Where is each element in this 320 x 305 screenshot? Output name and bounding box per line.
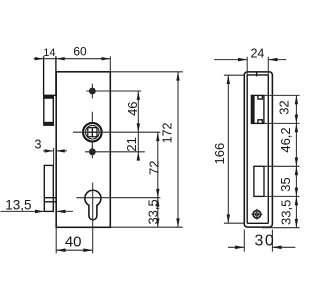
deadbolt inner line 1 xyxy=(44,197,56,199)
dim 13,5 line xyxy=(1,210,74,212)
dim 166 line xyxy=(227,75,229,223)
arrow 35 bottom xyxy=(295,188,298,197)
spindle square hole xyxy=(88,128,97,137)
deadbolt box xyxy=(44,165,53,211)
keeper plate outer xyxy=(244,72,272,227)
latch notch bottom xyxy=(258,120,263,124)
arrow 30 right xyxy=(272,246,281,250)
dim 3 ext line xyxy=(53,148,55,166)
arrow 33,5R top xyxy=(295,196,298,205)
arrow 172 top xyxy=(176,72,179,81)
svg-text:33,5: 33,5 xyxy=(146,199,161,224)
arrow 3 right xyxy=(56,149,65,152)
case right edge extension up xyxy=(109,56,111,72)
arrow 3 left xyxy=(45,149,54,152)
screw hole xyxy=(253,211,261,219)
case bottom extension right xyxy=(110,226,183,228)
svg-text:24: 24 xyxy=(250,47,264,61)
dim 166 ext lines xyxy=(224,75,245,223)
latch notch top xyxy=(258,95,263,99)
svg-text:14: 14 xyxy=(43,47,55,59)
arrow 33,5 bottom xyxy=(156,218,159,227)
dim 14/60 line xyxy=(34,58,111,60)
case top extension right xyxy=(110,71,183,73)
euro cylinder hole xyxy=(85,190,101,220)
arrow 46 top xyxy=(137,91,140,100)
deadbolt inner line 2 xyxy=(44,201,56,203)
upper dot centerlines xyxy=(86,84,141,99)
svg-text:60: 60 xyxy=(73,45,87,59)
case-left extension below xyxy=(55,227,57,253)
arrow 46 bottom xyxy=(137,123,140,132)
arrow 166 bottom xyxy=(227,214,230,223)
latch hatch band top xyxy=(44,96,53,99)
arrow 40 left xyxy=(56,248,65,252)
svg-text:3: 3 xyxy=(35,137,42,151)
svg-text:30: 30 xyxy=(255,233,276,250)
arrow 40 right xyxy=(83,248,92,252)
svg-text:46: 46 xyxy=(125,101,140,115)
svg-text:32: 32 xyxy=(277,100,292,114)
lower dot hole xyxy=(89,148,96,155)
dim 72/33,5 line xyxy=(157,132,159,227)
latch hatch band bottom xyxy=(44,122,53,125)
arrow 172 bottom xyxy=(176,218,179,227)
arrow 14 left xyxy=(35,57,44,60)
arrow 24 left xyxy=(238,58,247,62)
latch cutout xyxy=(251,95,264,123)
arrow 24 right xyxy=(268,58,277,62)
arrow 21 bottom (outside) xyxy=(137,152,140,161)
dim 3 line xyxy=(43,150,67,152)
latch box bottom line xyxy=(43,124,54,126)
latch bolt face bar xyxy=(251,95,254,123)
dim 30 line xyxy=(228,246,295,248)
arrow 60 right xyxy=(102,57,111,60)
svg-text:166: 166 xyxy=(212,143,227,165)
arrow 32 top xyxy=(295,95,298,104)
arrow 72 bottom xyxy=(156,189,159,198)
latch bolt upper box xyxy=(44,56,56,95)
cylinder centerlines xyxy=(76,183,160,254)
arrow 30 left xyxy=(235,246,244,250)
spindle follower hub xyxy=(83,123,102,142)
arrow 46,2 top xyxy=(295,123,298,132)
dim 24 xyxy=(214,59,286,61)
dim 46/21 line xyxy=(137,91,139,158)
svg-text:13,5: 13,5 xyxy=(5,197,31,212)
svg-text:33,5: 33,5 xyxy=(279,200,294,225)
arrow 46,2 bottom xyxy=(295,158,298,167)
deadbolt cutout xyxy=(254,166,264,196)
right chain dim line xyxy=(295,95,297,227)
arrow 13,5 left xyxy=(35,210,44,214)
arrow 60 left xyxy=(56,57,65,60)
svg-text:172: 172 xyxy=(161,123,175,144)
faceplate inner xyxy=(247,75,268,223)
top seam tick xyxy=(256,72,258,77)
spindle centerlines xyxy=(73,112,160,149)
latch box shoulder line xyxy=(43,94,57,96)
arrow 35 top xyxy=(295,166,298,175)
svg-text:40: 40 xyxy=(65,233,82,250)
svg-text:21: 21 xyxy=(124,137,139,151)
arrow 33,5R bottom xyxy=(295,219,298,228)
svg-text:72: 72 xyxy=(147,161,162,175)
upper dot hole xyxy=(89,88,96,95)
arrow 166 top xyxy=(227,75,230,84)
screw hole centerlines xyxy=(251,209,262,220)
arrow 33,5 top xyxy=(156,198,159,207)
arrow 32 bottom xyxy=(295,115,298,124)
dim 172 line xyxy=(177,72,179,227)
latch lower box sides xyxy=(44,96,54,125)
arrow 13,5 right xyxy=(56,210,65,214)
lower dot centerlines xyxy=(85,145,145,158)
dim 24 ext lines xyxy=(247,57,268,75)
svg-text:35: 35 xyxy=(278,177,293,191)
dim 40 line xyxy=(56,249,92,251)
lock case body (left view) xyxy=(56,72,110,228)
right chain ext lines xyxy=(262,95,300,227)
svg-text:46,2: 46,2 xyxy=(278,127,293,152)
dim 30 ext lines xyxy=(244,230,272,252)
arrow 72 top xyxy=(156,132,159,141)
